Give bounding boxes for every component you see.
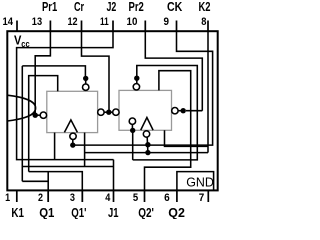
svg-text:Q1': Q1' [71, 206, 86, 219]
junction dot FF2 clock [145, 142, 150, 147]
wire: FF1 bottom stub [54, 133, 56, 160]
junction dot FF2 J [130, 128, 135, 133]
junction dot Pr1 [33, 113, 38, 118]
wire stub to FF2 output bubble [178, 110, 183, 112]
svg-text:6: 6 [164, 192, 170, 204]
svg-text:J2: J2 [107, 0, 117, 14]
svg-text:14: 14 [3, 16, 14, 28]
svg-text:GND: GND [186, 175, 214, 189]
bubble FF2 left clear [113, 109, 119, 115]
svg-text:K2: K2 [199, 0, 211, 14]
wire stub FF2 clock [146, 138, 149, 153]
wire: pin 4 riser to row IIIa [113, 160, 115, 191]
wire: row IIIc from FF2 J stub to FF2 top bubble loop [133, 66, 198, 160]
wire stub FF2 J bubble [131, 124, 133, 130]
wire: row C to pin 3 [29, 172, 83, 202]
svg-text:Q2': Q2' [138, 206, 154, 219]
top pin tick 10 [144, 21, 146, 32]
wire: Cr pin12 to center junction [82, 31, 110, 110]
wire: J2 pin11 long loop via left and bottom to FF2 top [17, 31, 114, 160]
wire stub to FF1 top bubble [85, 78, 87, 84]
wire: FF1 top plain input riser [29, 76, 58, 172]
svg-text:Pr1: Pr1 [42, 0, 57, 14]
svg-text:CK: CK [167, 0, 182, 14]
wire: row D to pin 2 riser [22, 180, 48, 182]
svg-text:9: 9 [164, 16, 170, 28]
bottom pin tick 4 [113, 190, 115, 202]
bottom pin tick 6 [176, 190, 178, 202]
bubble FF1 top input [83, 84, 89, 90]
junction dot FF2 clock lower [145, 150, 150, 155]
flip-flop U1 box [47, 91, 98, 132]
wire stub to FF2 top bubble [136, 78, 138, 83]
bubble FF1 right clear [98, 109, 104, 115]
DIP notch arc [7, 95, 35, 121]
wire: FF2 top plain loop via T7 riser to pin 5 [145, 71, 191, 191]
top pin tick 14 [16, 21, 18, 32]
svg-text:7: 7 [199, 192, 205, 204]
svg-text:3: 3 [70, 192, 75, 204]
svg-text:13: 13 [32, 16, 42, 28]
wire: Q2 pin6 GND-area elbow [177, 172, 214, 191]
wire: K2 bus row [85, 152, 208, 154]
wire: CK pin9 to clock bus [73, 31, 213, 145]
svg-text:11: 11 [100, 16, 109, 28]
svg-text:5: 5 [133, 192, 138, 204]
flip-flop U2 box [119, 90, 172, 130]
bubble FF1 clock [70, 133, 76, 139]
bottom pin tick 3 [81, 190, 83, 202]
bottom pin tick 2 [47, 190, 49, 202]
bubble FF2 J inside [129, 118, 135, 124]
svg-text:2: 2 [38, 192, 43, 204]
triangle FF2 clock edge [141, 118, 153, 131]
svg-text:4: 4 [105, 192, 111, 204]
top pin tick 12 [81, 21, 83, 32]
bubble FF1 preset input [40, 112, 46, 118]
wire: FF2 J input stub from row IIIc [132, 131, 134, 160]
wire: FF2 bottom-right stub row [165, 130, 209, 146]
svg-text:Q1: Q1 [39, 206, 54, 219]
junction dot FF1 top [83, 76, 88, 81]
svg-text:J1: J1 [108, 206, 119, 219]
circuit schematic: 74LS78-style dual JK flip-flop IC pin connection diagram [0, 0, 221, 219]
wire: FF1 top bubble feed from left riser [22, 66, 85, 76]
triangle FF1 clock edge [64, 120, 77, 132]
junction dot Cr center [106, 110, 111, 115]
svg-text:K1: K1 [11, 206, 24, 219]
top pin tick 11 [112, 21, 114, 32]
wire: Pr1 pin13 left route [35, 31, 50, 114]
wire: FF2 right output line [186, 110, 202, 112]
bubble FF2 top input [133, 84, 139, 90]
top pin tick 13 [49, 21, 51, 32]
svg-text:12: 12 [68, 16, 78, 28]
wire: row B [22, 166, 113, 168]
svg-text:Q2: Q2 [168, 206, 185, 219]
wire: pin 2 riser [47, 172, 49, 202]
bubble FF2 right output [172, 108, 178, 114]
wire stub FF1 clock [72, 139, 74, 145]
bottom pin tick 7 [207, 190, 209, 202]
bottom pin tick 5 [144, 190, 146, 202]
junction dot FF1 clock [70, 142, 75, 147]
svg-text:Cr: Cr [74, 0, 84, 14]
junction dot FF2 output [181, 108, 186, 113]
top pin tick 8 [207, 21, 209, 32]
wire stub between clear bubbles [103, 111, 114, 113]
wire: FF1 Q1' stub down to row B [84, 133, 86, 167]
svg-text:Pr2: Pr2 [129, 0, 144, 14]
svg-text:8: 8 [201, 16, 206, 28]
junction dot FF2 top [134, 76, 139, 81]
wire: left riser from T5 down to row D [21, 66, 23, 181]
svg-text:1: 1 [5, 192, 10, 204]
svg-text:10: 10 [127, 16, 138, 28]
wire stub to FF1 preset bubble [35, 114, 40, 116]
bubble FF2 clock [143, 131, 149, 137]
bottom pin tick 1 [16, 190, 18, 202]
IC package outline [7, 31, 217, 190]
wire: K2 pin8 down to K2 bus [207, 31, 209, 153]
top pin tick 9 [176, 21, 178, 32]
wire: Pr2 pin10 right route down to FF2 output line [145, 31, 202, 111]
